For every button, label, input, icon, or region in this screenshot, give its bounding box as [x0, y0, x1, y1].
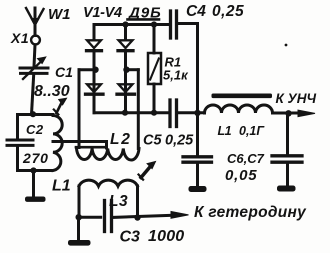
svg-text:270: 270 [22, 150, 49, 166]
svg-text:0,25: 0,25 [212, 3, 244, 20]
svg-text:V1-V4: V1-V4 [83, 5, 122, 21]
svg-text:C2: C2 [26, 122, 44, 137]
svg-text:L1: L1 [218, 124, 232, 138]
svg-text:8..30: 8..30 [34, 83, 70, 100]
svg-text:1000: 1000 [148, 228, 184, 245]
svg-text:C3: C3 [120, 229, 141, 246]
svg-text:L3: L3 [109, 193, 128, 210]
svg-text:L2: L2 [110, 131, 132, 148]
svg-text:5,1к: 5,1к [163, 68, 189, 83]
svg-text:0,25: 0,25 [165, 133, 194, 149]
svg-text:W1: W1 [48, 6, 71, 23]
svg-text:C4: C4 [186, 3, 206, 20]
svg-text:L1: L1 [52, 178, 71, 195]
svg-text:X1: X1 [10, 30, 29, 46]
svg-text:К гетеродину: К гетеродину [194, 204, 307, 221]
svg-text:0,05: 0,05 [225, 167, 257, 184]
svg-text:C1: C1 [55, 64, 73, 80]
svg-text:К УНЧ: К УНЧ [276, 91, 317, 106]
svg-text:Д9Б: Д9Б [127, 5, 162, 22]
svg-text:C6,C7: C6,C7 [227, 151, 265, 166]
svg-text:C5: C5 [143, 133, 162, 149]
svg-text:0,1Г: 0,1Г [239, 124, 265, 138]
